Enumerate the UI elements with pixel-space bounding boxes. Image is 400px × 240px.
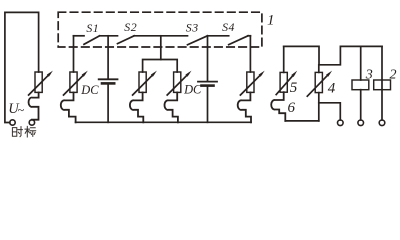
bottom bus wire bbox=[76, 121, 251, 123]
wire branch 3R drop bbox=[360, 46, 362, 80]
resistor R6 (adjustable, labeled 4) bbox=[307, 71, 332, 97]
wire node to terminal bbox=[319, 103, 341, 120]
resistor R3 (adjustable) bbox=[167, 71, 191, 95]
timer box (open-bottom rectangle, left device) bbox=[5, 12, 39, 122]
relay coil 2 (box) bbox=[374, 80, 391, 90]
resistor R1 (adjustable) bbox=[64, 71, 88, 95]
capacitor C2 bbox=[198, 82, 217, 86]
wire branch 3 riser bbox=[160, 36, 162, 60]
jack J0 (plug-socket under RU) bbox=[29, 92, 39, 119]
terminal circle (U~ right, under jack J0) bbox=[29, 120, 34, 125]
wire capacitor C2 to bus bbox=[207, 87, 209, 123]
switch S3 blade bbox=[188, 36, 208, 45]
wire (S2 to branch 3) bbox=[134, 35, 187, 37]
dashed selector box 1 bbox=[58, 12, 262, 47]
svg-text:S4: S4 bbox=[222, 20, 235, 34]
wire (S3 to S4) bbox=[208, 35, 229, 37]
svg-text:~: ~ bbox=[18, 103, 25, 117]
svg-text:S3: S3 bbox=[186, 21, 199, 35]
wire (S4 to branch 5) bbox=[248, 35, 250, 37]
jack J3 bbox=[165, 92, 178, 122]
wire branch 5 drop bbox=[249, 36, 251, 72]
svg-text:3: 3 bbox=[365, 68, 373, 83]
jack J2 bbox=[130, 92, 143, 122]
relay coil 3 (box) bbox=[352, 80, 369, 90]
wire branch 5R drop bbox=[283, 46, 285, 72]
wire capacitor C1 to bus bbox=[107, 85, 109, 123]
wire branch 1 drop bbox=[73, 36, 75, 72]
capacitor C1 bbox=[99, 79, 118, 83]
wire branch 2 drop bbox=[107, 36, 109, 79]
wire coil 3 to terminal bbox=[360, 90, 362, 120]
switch S2 blade bbox=[118, 36, 135, 44]
terminal circle (U~ left) bbox=[10, 120, 15, 125]
label 时标 (drawn strokes: 标) bbox=[25, 126, 36, 137]
terminal circle (right 3) bbox=[379, 120, 385, 126]
switch S1 blade bbox=[84, 36, 100, 45]
right section top rail wire bbox=[284, 46, 382, 64]
wire branch 4 drop bbox=[207, 36, 209, 81]
resistor R2 (adjustable) bbox=[133, 71, 157, 95]
terminal circle (right 1) bbox=[338, 120, 344, 126]
label 时标 (drawn strokes: 时) bbox=[12, 127, 22, 137]
bottom wire (jack J6 to node) bbox=[285, 120, 319, 122]
resistor R5 (adjustable) bbox=[276, 71, 297, 95]
resistor R4 (adjustable) bbox=[240, 71, 264, 95]
jack J1 bbox=[61, 92, 76, 122]
svg-text:2: 2 bbox=[390, 68, 397, 83]
svg-text:S2: S2 bbox=[124, 20, 137, 34]
wire branch 2R drop bbox=[381, 46, 383, 120]
resistor RU (adjustable, U~ branch) bbox=[29, 71, 53, 95]
switch S4 blade bbox=[229, 36, 248, 45]
svg-text:4: 4 bbox=[328, 80, 336, 96]
wire branch 4R (dip to resistor) bbox=[318, 65, 320, 73]
terminal circle (right 2) bbox=[358, 120, 364, 126]
wire branch 3 split bbox=[143, 60, 178, 73]
wire branch 4R down bbox=[318, 93, 320, 121]
wire (S1 to branch 2) bbox=[100, 35, 118, 37]
svg-text:1: 1 bbox=[267, 12, 275, 28]
svg-text:5: 5 bbox=[290, 80, 298, 96]
svg-text:S1: S1 bbox=[86, 21, 99, 35]
svg-text:DC: DC bbox=[80, 83, 99, 97]
switch bus wire segment (left of S1) bbox=[74, 35, 85, 37]
svg-text:DC: DC bbox=[183, 83, 202, 97]
svg-text:6: 6 bbox=[288, 100, 296, 116]
jack J4 bbox=[238, 92, 251, 122]
jack J6 bbox=[271, 92, 285, 121]
